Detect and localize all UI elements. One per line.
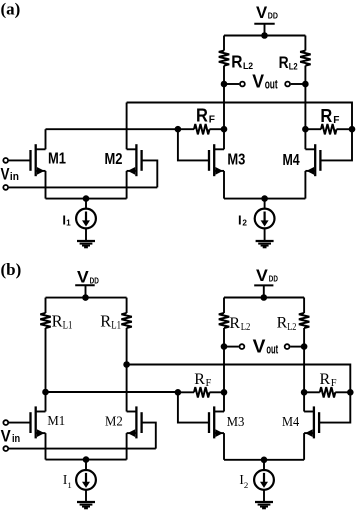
svg-text:M3: M3 bbox=[227, 152, 245, 169]
wire rail to RL2 left (b) bbox=[223, 298, 225, 314]
svg-text:F: F bbox=[333, 115, 339, 126]
svg-text:DD: DD bbox=[268, 11, 278, 21]
node tail left (a) bbox=[83, 195, 90, 202]
svg-text:M1: M1 bbox=[48, 150, 66, 167]
node VDD rail right (b) bbox=[261, 294, 268, 301]
label Vout (b) bbox=[253, 336, 279, 357]
wire VDD stub right (b) bbox=[263, 285, 265, 297]
wire tail to I2 (a) bbox=[264, 199, 266, 209]
label I1 (a) bbox=[62, 212, 71, 227]
label RF right (a) bbox=[320, 106, 339, 126]
label M2 (a) bbox=[105, 151, 123, 168]
wire RF right lead (a) bbox=[305, 128, 321, 130]
wire tail to I1 (a) bbox=[85, 199, 87, 209]
wire rail to RL2 right (a) bbox=[304, 36, 306, 51]
svg-text:2: 2 bbox=[242, 219, 247, 228]
wire tail left (b) bbox=[46, 459, 127, 461]
figure label (a) bbox=[1, 0, 21, 19]
current source I2 (a) bbox=[255, 209, 275, 229]
wire rail to RL2 left (a) bbox=[223, 36, 225, 51]
current source I1 (b) bbox=[76, 470, 96, 490]
wire tail to I2 (b) bbox=[263, 460, 265, 470]
label RL2 left (a) bbox=[231, 52, 253, 72]
label M4 (a) bbox=[283, 152, 300, 169]
resistor RL2 left (b) bbox=[219, 313, 229, 328]
wire RF left lead (b) bbox=[178, 391, 194, 393]
svg-text:F: F bbox=[206, 378, 212, 389]
resistor RF left (b) bbox=[194, 387, 210, 397]
node Vout left (a) bbox=[221, 81, 228, 88]
svg-text:M2: M2 bbox=[105, 151, 123, 168]
node Vout left (b) bbox=[221, 343, 228, 350]
svg-text:V: V bbox=[77, 269, 89, 287]
wire rail to RL1 right (b) bbox=[126, 298, 128, 313]
svg-text:DD: DD bbox=[90, 275, 99, 285]
wire M2 drain riser (a) bbox=[126, 103, 128, 150]
node RF left resistor left end (a) bbox=[175, 126, 182, 133]
wire M2 drain to M4 gate (b) bbox=[127, 365, 351, 393]
label VDD (a) bbox=[256, 4, 278, 22]
svg-text:M4: M4 bbox=[283, 152, 300, 169]
current source I1 (a) bbox=[76, 209, 96, 229]
svg-text:R: R bbox=[231, 52, 243, 72]
wire M3 source down (b) bbox=[223, 433, 225, 460]
svg-text:DD: DD bbox=[269, 274, 278, 284]
node M1 drain (b) bbox=[42, 389, 49, 396]
wire M1 drain down (b) bbox=[45, 392, 47, 412]
wire Vout right (a) bbox=[291, 83, 306, 85]
ground I1 (a) bbox=[77, 241, 95, 247]
wire tail to I1 (b) bbox=[85, 460, 87, 470]
svg-text:R: R bbox=[277, 315, 288, 332]
wire rail to RL1 left (b) bbox=[45, 298, 47, 313]
wire RF node to M3 drain (b) bbox=[223, 392, 225, 411]
label I2 (a) bbox=[238, 212, 247, 227]
svg-text:L1: L1 bbox=[63, 320, 73, 332]
svg-text:F: F bbox=[209, 114, 215, 125]
label M1 (a) bbox=[48, 150, 66, 167]
wire M3 source down (a) bbox=[223, 171, 225, 199]
node VDD rail (a) bbox=[261, 32, 268, 39]
wire Vout to RF node left col (b) bbox=[223, 347, 225, 393]
transistor M2 (b) bbox=[127, 406, 142, 438]
wire RF left lead (a) bbox=[178, 128, 194, 130]
svg-text:M2: M2 bbox=[105, 415, 123, 430]
svg-text:M3: M3 bbox=[227, 415, 245, 430]
label RF right (b) bbox=[320, 371, 337, 389]
terminal Vin- (a) bbox=[3, 185, 8, 190]
label RF left (b) bbox=[194, 371, 211, 389]
node Vout right (a) bbox=[302, 81, 309, 88]
wire RL2 left to Vout node (b) bbox=[223, 328, 225, 347]
wire Vout left (a) bbox=[224, 83, 239, 85]
resistor RL2 right (a) bbox=[300, 51, 310, 66]
node RF right resistor left end (a) bbox=[302, 126, 309, 133]
current source I2 (b) bbox=[254, 470, 274, 490]
svg-text:F: F bbox=[331, 378, 337, 389]
wire RF left lead2 (a) bbox=[210, 128, 225, 130]
svg-text:R: R bbox=[194, 371, 205, 388]
node RF right resistor right end (b) bbox=[347, 389, 354, 396]
wire M4 source down (a) bbox=[304, 171, 306, 199]
resistor RL1 left (b) bbox=[40, 313, 50, 328]
transistor M1 (a) bbox=[31, 144, 46, 176]
label RL2 left (b) bbox=[229, 315, 250, 333]
node RF left resistor right end (a) bbox=[221, 126, 228, 133]
power VDD bar right (b) bbox=[254, 284, 273, 286]
wire M3 gate loop (b) bbox=[178, 392, 209, 422]
wire Vout left (b) bbox=[224, 346, 239, 348]
node M2 drain to M4 gate (b) bbox=[123, 361, 130, 368]
terminal Vout right (a) bbox=[285, 82, 290, 87]
resistor RF left (a) bbox=[194, 124, 210, 134]
wire RL1 left to M1 drain node (b) bbox=[45, 328, 47, 392]
label I2 (b) bbox=[239, 472, 248, 490]
wire RF right lead2 (b) bbox=[335, 391, 350, 393]
wire M1 drain to RF left node (a) bbox=[46, 128, 178, 130]
svg-text:R: R bbox=[52, 312, 63, 331]
svg-text:in: in bbox=[10, 171, 19, 183]
wire M2 source down (a) bbox=[126, 171, 128, 199]
wire RF right lead2 (a) bbox=[337, 128, 353, 130]
wire RL2 right to Vout node (b) bbox=[303, 328, 305, 347]
transistor M1 (b) bbox=[31, 406, 46, 438]
terminal Vin+ (a) bbox=[3, 158, 8, 163]
wire tail right (a) bbox=[224, 198, 305, 200]
label RF left (a) bbox=[196, 106, 215, 126]
svg-text:V: V bbox=[1, 428, 11, 446]
terminal Vout right (b) bbox=[285, 344, 290, 349]
node RF left resistor left end (b) bbox=[175, 389, 182, 396]
svg-text:L2: L2 bbox=[287, 322, 296, 333]
svg-text:V: V bbox=[256, 267, 268, 285]
svg-text:M1: M1 bbox=[47, 414, 65, 429]
wire M2 gate loop (b) bbox=[142, 423, 156, 449]
wire I1 to ground (b) bbox=[85, 490, 87, 502]
svg-text:R: R bbox=[279, 53, 289, 72]
power VDD bar (a) bbox=[254, 23, 274, 25]
svg-text:V: V bbox=[253, 336, 266, 357]
node RF right resistor left end (b) bbox=[301, 389, 308, 396]
wire VDD stub left (b) bbox=[85, 285, 87, 297]
wire RF node to M3 drain (a) bbox=[223, 129, 225, 149]
resistor RL2 left (a) bbox=[219, 51, 229, 66]
power VDD bar left (b) bbox=[75, 284, 95, 286]
node RF right resistor right end (a) bbox=[349, 126, 356, 133]
transistor M3 (b) bbox=[209, 406, 224, 438]
transistor M4 (b) bbox=[304, 406, 319, 438]
wire VDD stub (a) bbox=[264, 24, 266, 36]
wire M2 source down (b) bbox=[126, 433, 128, 460]
label M4 (b) bbox=[282, 415, 299, 430]
wire I2 to ground (a) bbox=[264, 228, 266, 240]
wire M4 source down (b) bbox=[303, 433, 305, 460]
wire Vin- to M2 gate loop (a) bbox=[9, 186, 158, 188]
svg-text:R: R bbox=[320, 106, 332, 126]
svg-text:L2: L2 bbox=[241, 322, 251, 333]
wire top rail right (b) bbox=[224, 297, 304, 299]
label RL1 right (b) bbox=[100, 312, 121, 332]
svg-text:V: V bbox=[1, 164, 10, 183]
label RL2 right (a) bbox=[279, 53, 298, 72]
wire RL1 right to cross node (b) bbox=[126, 328, 128, 365]
label M2 (b) bbox=[105, 415, 123, 430]
wire I2 to ground (b) bbox=[263, 490, 265, 502]
wire Vin+ to M1 gate (b) bbox=[9, 422, 31, 424]
svg-text:L2: L2 bbox=[289, 61, 298, 71]
svg-text:2: 2 bbox=[244, 480, 248, 490]
ground I2 (a) bbox=[256, 241, 274, 247]
ground I1 (b) bbox=[77, 502, 95, 508]
terminal Vin+ (b) bbox=[3, 420, 8, 425]
transistor M3 (a) bbox=[209, 144, 224, 176]
wire top rail (a) bbox=[224, 35, 305, 37]
wire RL2 right to Vout node (a) bbox=[304, 66, 306, 84]
svg-text:V: V bbox=[256, 4, 267, 22]
wire Vout to M4 drain col (a) bbox=[304, 84, 306, 149]
label Vin (b) bbox=[1, 428, 21, 446]
svg-text:in: in bbox=[12, 433, 20, 445]
node Vout right (b) bbox=[301, 343, 308, 350]
wire M1 drain riser (a) bbox=[45, 129, 47, 149]
wire M2 drain down (b) bbox=[126, 365, 128, 412]
svg-text:V: V bbox=[252, 71, 264, 92]
wire rail to RL2 right (b) bbox=[303, 298, 305, 314]
svg-text:M4: M4 bbox=[282, 415, 299, 430]
wire Vin+ to M1 gate (a) bbox=[9, 159, 31, 161]
wire Vin- to M2 gate loop (b) bbox=[9, 448, 156, 450]
wire I1 to ground (a) bbox=[85, 228, 87, 240]
terminal Vout left (a) bbox=[240, 82, 245, 87]
svg-text:(b): (b) bbox=[1, 260, 22, 279]
wire M4 gate loop (b) bbox=[319, 392, 350, 422]
label I1 (b) bbox=[63, 472, 72, 490]
transistor M2 (a) bbox=[127, 144, 142, 176]
label M3 (b) bbox=[227, 415, 245, 430]
wire tail right (b) bbox=[224, 459, 304, 461]
wire M1 drain to RF left node (b) bbox=[46, 391, 178, 393]
node RF left resistor right end (b) bbox=[221, 389, 228, 396]
label Vin (a) bbox=[1, 164, 19, 183]
terminal Vout left (b) bbox=[240, 344, 245, 349]
wire Vout to RF node left col (a) bbox=[223, 84, 225, 129]
ground I2 (b) bbox=[255, 502, 273, 508]
svg-text:R: R bbox=[100, 312, 111, 331]
wire M1 source down (a) bbox=[45, 171, 47, 199]
svg-text:R: R bbox=[320, 371, 331, 388]
transistor M4 (a) bbox=[305, 144, 320, 176]
node tail left (b) bbox=[83, 456, 90, 463]
svg-text:L1: L1 bbox=[111, 320, 121, 332]
svg-text:R: R bbox=[196, 106, 208, 126]
label RL2 right (b) bbox=[277, 315, 297, 333]
wire RL2 left to Vout node (a) bbox=[223, 66, 225, 84]
svg-text:1: 1 bbox=[67, 480, 71, 490]
label VDD left (b) bbox=[77, 269, 99, 287]
wire M2 gate loop (a) bbox=[142, 160, 158, 187]
resistor RL1 right (b) bbox=[121, 313, 131, 328]
wire RF left lead2 (b) bbox=[210, 391, 225, 393]
svg-text:out: out bbox=[266, 342, 278, 357]
wire tail left (a) bbox=[46, 198, 127, 200]
wire M2 drain to M4 gate (a) bbox=[127, 103, 352, 161]
svg-text:(a): (a) bbox=[1, 0, 21, 19]
wire M3 gate loop (a) bbox=[178, 129, 209, 160]
node VDD rail left (b) bbox=[82, 294, 89, 301]
svg-text:R: R bbox=[229, 315, 240, 332]
figure label (b) bbox=[1, 260, 22, 279]
resistor RL2 right (b) bbox=[299, 313, 309, 328]
wire top rail left (b) bbox=[46, 297, 127, 299]
label M1 (b) bbox=[47, 414, 65, 429]
svg-text:1: 1 bbox=[66, 219, 71, 228]
resistor RF right (b) bbox=[320, 387, 336, 397]
label VDD right (b) bbox=[256, 267, 278, 285]
wire RF right lead (b) bbox=[304, 391, 320, 393]
terminal Vin- (b) bbox=[3, 446, 8, 451]
svg-text:out: out bbox=[265, 77, 278, 92]
wire Vout to M4 drain col (b) bbox=[303, 347, 305, 412]
node tail right (a) bbox=[261, 195, 268, 202]
wire Vout right (b) bbox=[290, 346, 304, 348]
svg-text:I: I bbox=[238, 212, 242, 227]
label M3 (a) bbox=[227, 152, 245, 169]
label Vout (a) bbox=[252, 71, 278, 92]
label RL1 left (b) bbox=[52, 312, 73, 332]
node tail right (b) bbox=[261, 457, 268, 464]
wire M1 source down (b) bbox=[45, 433, 47, 460]
resistor RF right (a) bbox=[321, 124, 337, 134]
